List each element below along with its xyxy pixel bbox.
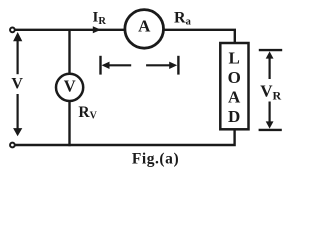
ammeter A (circle) [125,10,164,49]
svg-text:V: V [64,77,76,96]
dimension marker right bar [177,56,179,75]
wire: ammeter to top-right corner, down to load [164,30,235,43]
svg-text:Fig.(a): Fig.(a) [132,150,179,167]
wire: voltmeter branch lower segment [68,101,70,147]
wire: top horizontal from input terminal to ammeter [15,29,125,31]
svg-text:A: A [138,17,151,36]
svg-text:D: D [228,107,240,126]
input terminal (top left) [10,28,15,33]
svg-text:O: O [228,68,241,87]
load box [220,43,248,129]
V_R up arrow [269,56,271,79]
wire: bottom horizontal from terminal to load [15,129,235,145]
input terminal (bottom left) [10,143,15,148]
svg-text:V: V [11,76,23,93]
source voltage arrow V (up arrow) [17,40,19,75]
V_R dimension bottom bar [259,129,282,131]
wire: voltmeter branch upper segment [68,30,70,75]
current arrow I_R on top wire [93,26,101,33]
V_R down arrow [269,102,271,124]
svg-text:L: L [229,48,240,67]
dimension arrow pointing left [109,64,132,66]
dimension arrow pointing right [146,64,170,66]
dimension marker left bar [99,56,101,75]
V_R dimension top bar [259,49,282,51]
svg-text:A: A [228,87,241,106]
source voltage arrow V (down arrow) [17,94,19,130]
voltmeter V (circle) [56,74,83,101]
